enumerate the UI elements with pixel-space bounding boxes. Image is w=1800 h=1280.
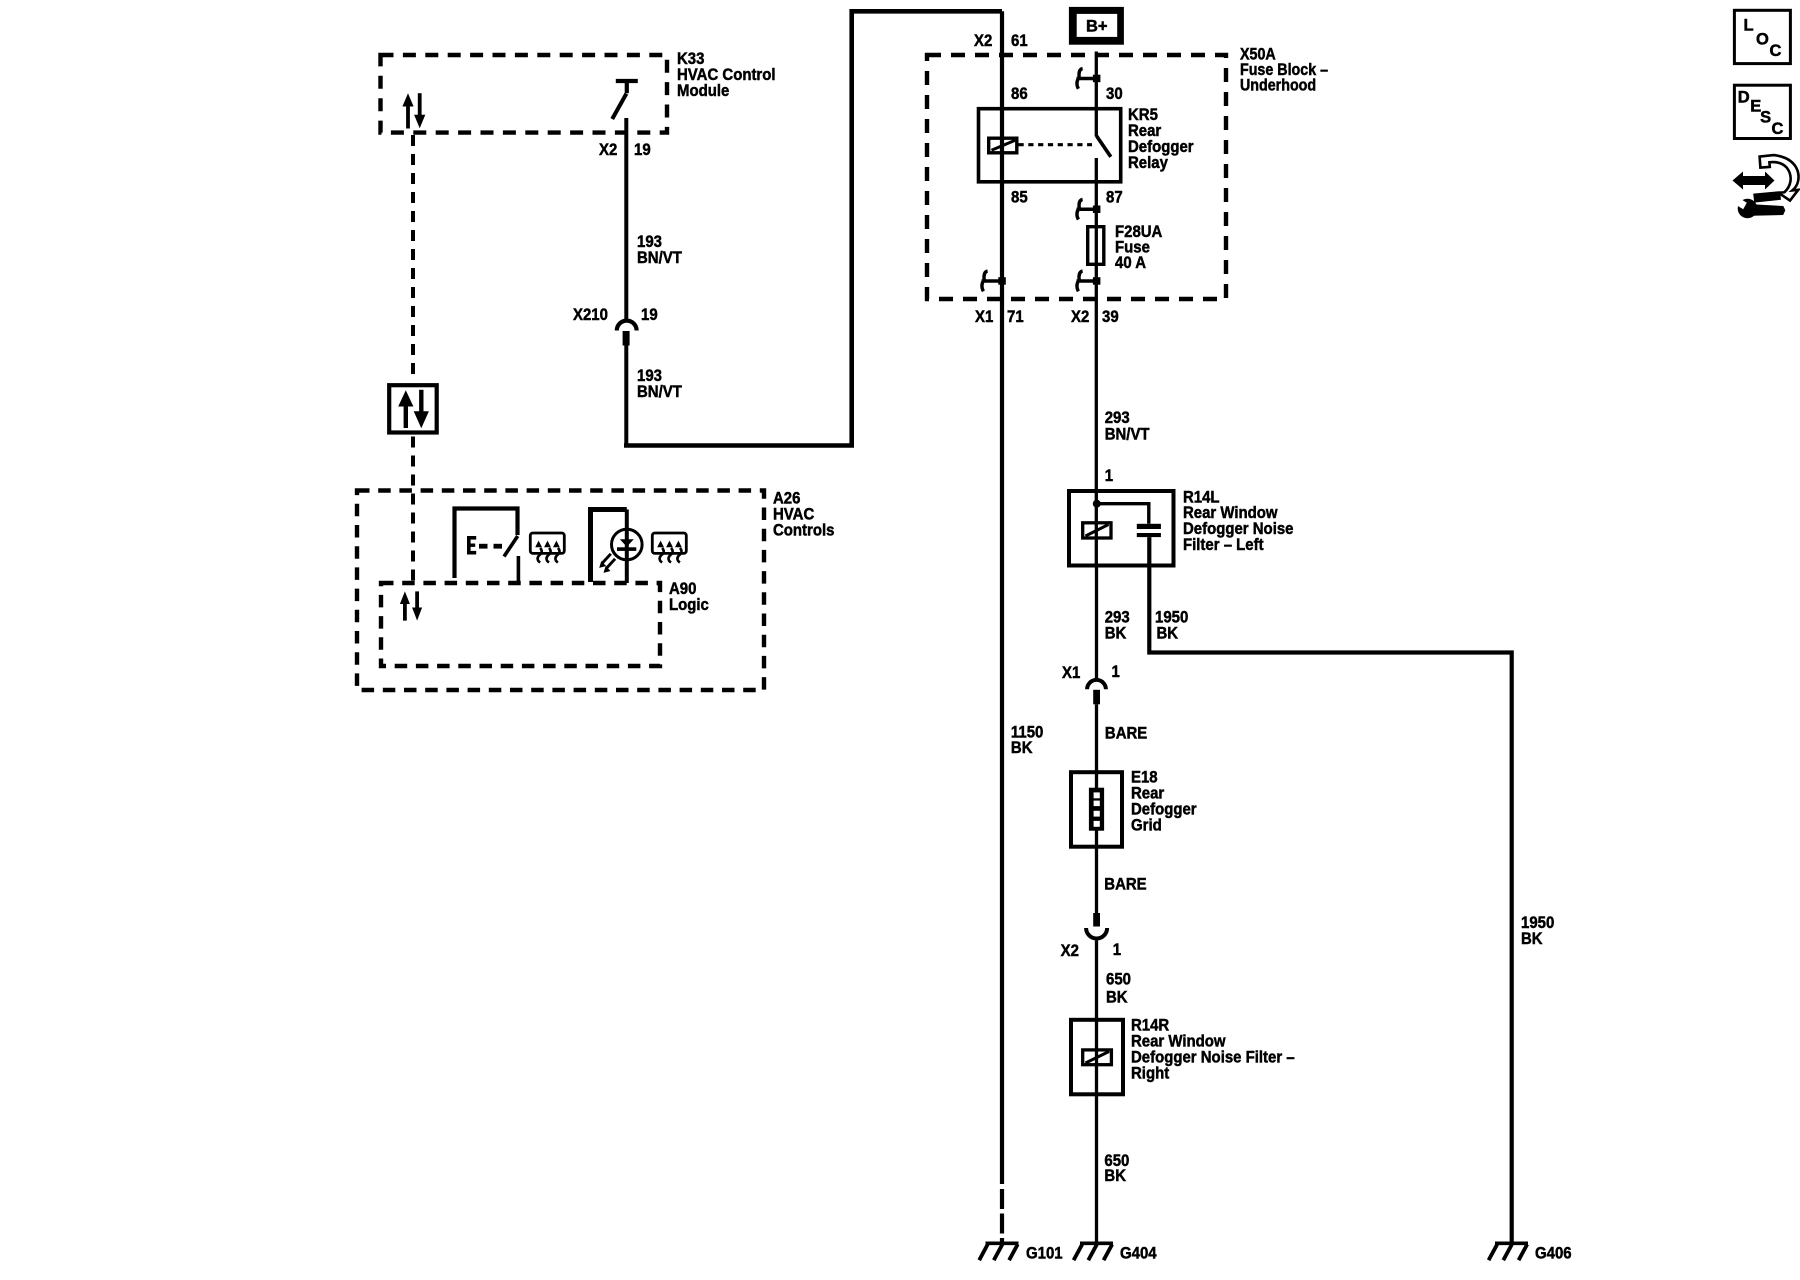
connector X210 xyxy=(617,321,637,346)
noise filter R14R box xyxy=(1071,1020,1123,1095)
clip connector at pin 87 xyxy=(1077,199,1101,219)
ground G404 xyxy=(1074,1243,1113,1260)
svg-text:BK: BK xyxy=(1157,625,1179,643)
module K33 HVAC Control Module dashed box xyxy=(381,55,668,133)
svg-text:1: 1 xyxy=(1105,467,1113,485)
svg-text:39: 39 xyxy=(1102,308,1119,326)
svg-text:BARE: BARE xyxy=(1104,876,1147,894)
svg-text:X2: X2 xyxy=(974,32,992,50)
serial data link box xyxy=(389,385,437,432)
dashed control wire link box to A90 xyxy=(411,437,415,582)
wire X2 61 main feed down left side xyxy=(1000,11,1004,1184)
DESC icon box xyxy=(1734,85,1790,138)
svg-text:Right: Right xyxy=(1131,1065,1170,1083)
service navigation icon xyxy=(1733,155,1799,218)
svg-text:85: 85 xyxy=(1011,189,1028,207)
fuse F28UA 40A xyxy=(1088,227,1104,265)
R14L capacitor branch wire xyxy=(1097,504,1149,524)
dashed control wire K33 to A26 xyxy=(411,135,415,382)
svg-text:86: 86 xyxy=(1011,85,1028,103)
relay dashed actuation link xyxy=(1019,143,1093,146)
svg-text:BK: BK xyxy=(1011,739,1033,757)
R14L choke resistor xyxy=(1083,523,1111,538)
svg-text:G404: G404 xyxy=(1120,1245,1157,1263)
svg-text:BK: BK xyxy=(1521,930,1543,948)
wire X1 to E18 to X2 blade xyxy=(1095,704,1098,913)
svg-text:Relay: Relay xyxy=(1128,154,1168,172)
connector X1 of E18 xyxy=(1087,680,1106,704)
svg-text:L: L xyxy=(1744,17,1754,35)
svg-text:19: 19 xyxy=(634,141,651,159)
svg-text:61: 61 xyxy=(1011,32,1028,50)
link box up/down arrows xyxy=(398,390,429,429)
battery feed symbol B+ xyxy=(1069,7,1124,45)
heated rear window icon 2 xyxy=(652,533,686,563)
LOC icon box xyxy=(1734,10,1790,63)
svg-text:C: C xyxy=(1772,120,1784,138)
svg-text:BN/VT: BN/VT xyxy=(1105,426,1150,444)
logic block A90 dashed box xyxy=(381,583,660,666)
clip connector at X1 71 xyxy=(982,271,1006,291)
E18 grid element xyxy=(1089,788,1104,831)
svg-text:B+: B+ xyxy=(1086,18,1108,36)
svg-text:O: O xyxy=(1756,30,1769,48)
wire B+ to relay pin 30 xyxy=(1095,52,1098,137)
ground G101 xyxy=(979,1243,1018,1260)
R14R choke resistor xyxy=(1083,1050,1112,1065)
svg-text:40 A: 40 A xyxy=(1115,254,1146,272)
svg-text:BK: BK xyxy=(1104,1167,1126,1185)
R14L junction node xyxy=(1093,500,1101,508)
svg-text:Module: Module xyxy=(677,82,729,100)
wire R14L to X1 connector xyxy=(1095,565,1098,679)
svg-text:Filter – Left: Filter – Left xyxy=(1183,536,1264,554)
svg-text:BN/VT: BN/VT xyxy=(637,383,682,401)
wire X2 to R14R to G404 xyxy=(1095,941,1098,1242)
wire relay 87 down through fuse to X2 39 and R14L xyxy=(1095,158,1098,565)
svg-text:X2: X2 xyxy=(599,141,617,159)
A90 up/down arrows xyxy=(400,591,422,620)
svg-text:650: 650 xyxy=(1106,971,1131,989)
svg-text:G406: G406 xyxy=(1535,1245,1572,1263)
svg-text:X2: X2 xyxy=(1061,942,1079,960)
svg-text:30: 30 xyxy=(1106,85,1123,103)
fuse block X50A dashed box xyxy=(927,55,1226,299)
svg-text:X210: X210 xyxy=(573,306,608,324)
svg-text:C: C xyxy=(1770,42,1782,60)
heated rear window icon 1 xyxy=(530,533,564,563)
svg-text:S: S xyxy=(1760,109,1771,127)
svg-text:87: 87 xyxy=(1106,189,1123,207)
svg-text:BK: BK xyxy=(1105,625,1127,643)
module A26 HVAC Controls dashed box xyxy=(357,491,764,691)
svg-text:BK: BK xyxy=(1106,989,1128,1007)
clip connector at pin 30 xyxy=(1077,69,1101,89)
svg-text:Controls: Controls xyxy=(773,522,835,540)
svg-text:293: 293 xyxy=(1105,409,1130,427)
svg-text:X1: X1 xyxy=(975,308,993,326)
svg-text:X1: X1 xyxy=(1062,664,1080,682)
connector X2 of E18 xyxy=(1086,913,1107,939)
wire X210 down xyxy=(624,345,628,443)
R14L capacitor xyxy=(1137,524,1161,537)
svg-text:Logic: Logic xyxy=(669,596,709,614)
noise filter R14L box xyxy=(1069,491,1174,566)
wire K33 switch to connector X210 xyxy=(624,118,628,321)
wire dashed continuation to G101 xyxy=(1000,1189,1004,1242)
svg-text:71: 71 xyxy=(1007,308,1024,326)
svg-text:1: 1 xyxy=(1112,663,1120,681)
svg-text:BN/VT: BN/VT xyxy=(637,249,682,267)
wire elbow to fuse block feed xyxy=(626,11,1002,445)
relay coil xyxy=(989,138,1017,153)
relay KR5 box xyxy=(979,109,1121,182)
svg-text:Underhood: Underhood xyxy=(1240,76,1316,94)
K33 serial data up/down arrows xyxy=(402,93,425,128)
wire 1950 BK capacitor lead to G406 xyxy=(1149,537,1511,1241)
svg-text:Grid: Grid xyxy=(1131,817,1162,835)
svg-text:BARE: BARE xyxy=(1105,725,1148,743)
rear defogger grid E18 box xyxy=(1071,772,1122,847)
defogger switch icon in A26 xyxy=(455,509,519,583)
svg-text:X2: X2 xyxy=(1071,308,1089,326)
relay switch lever xyxy=(1097,136,1111,157)
indicator LED assembly in A26 xyxy=(591,510,643,584)
clip connector at X2 39 xyxy=(1077,271,1101,291)
svg-text:1: 1 xyxy=(1113,941,1121,959)
svg-text:19: 19 xyxy=(641,306,658,324)
svg-text:D: D xyxy=(1738,88,1750,106)
K33 internal defogger switch xyxy=(612,81,638,119)
svg-text:G101: G101 xyxy=(1026,1245,1063,1263)
ground G406 xyxy=(1489,1243,1528,1260)
